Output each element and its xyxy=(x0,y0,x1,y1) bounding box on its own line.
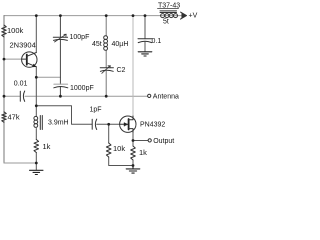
wire C2 to main wire xyxy=(105,71,107,96)
node dot emitter/tap xyxy=(35,104,38,107)
wire bottom-right xyxy=(109,157,133,166)
wire 1pF to gate xyxy=(97,123,120,125)
wire output xyxy=(132,132,134,146)
wire collector column xyxy=(35,16,37,53)
wire left rail xyxy=(3,16,5,163)
node dot emitter ground xyxy=(35,162,38,165)
inductor L3 choke 5t on T37-43 xyxy=(161,14,178,18)
svg-text:Antenna: Antenna xyxy=(153,94,179,101)
wire 0.1 cap branch xyxy=(144,16,146,39)
wire drain column xyxy=(132,16,134,116)
wire base (Q1) xyxy=(4,58,22,60)
ground (emitter) xyxy=(30,170,44,174)
svg-text:C2: C2 xyxy=(117,67,126,74)
wire tank column top xyxy=(105,16,107,36)
output terminal xyxy=(148,139,151,142)
wire trimmer column top xyxy=(59,16,61,37)
resistor R5 1k (source) xyxy=(131,146,136,160)
capacitor C1 0.01 xyxy=(20,91,24,101)
node dot 1000pF bottom xyxy=(59,95,62,98)
svg-text:100pF: 100pF xyxy=(70,34,90,41)
svg-text:1000pF: 1000pF xyxy=(70,85,94,92)
wire feedback emitter to caps xyxy=(36,76,60,78)
svg-text:Output: Output xyxy=(153,138,174,145)
resistor R2 47k xyxy=(2,112,7,123)
node dots left rail xyxy=(3,58,6,61)
node dot gate/10k xyxy=(107,123,110,126)
node dot source ground xyxy=(132,164,135,167)
wire 1000pF to main wire xyxy=(59,87,61,96)
svg-text:100k: 100k xyxy=(7,26,24,35)
node dot source/output xyxy=(132,139,135,142)
inductor L2 3.9mH xyxy=(34,116,38,127)
inductor L1 40uH (tank coil) xyxy=(104,36,108,51)
resistor R1 100k xyxy=(2,25,7,37)
svg-text:47k: 47k xyxy=(8,113,20,122)
svg-text:5t: 5t xyxy=(163,19,169,26)
wire emitter tap to 1pF xyxy=(36,106,92,125)
wire main horizontal (tank bottom / antenna) xyxy=(4,95,148,97)
transistor Q2 PN4392 JFET xyxy=(120,116,136,132)
svg-text:1k: 1k xyxy=(139,148,147,157)
wire 10k top xyxy=(108,124,110,143)
svg-text:1pF: 1pF xyxy=(90,107,102,114)
wire emitter column xyxy=(35,67,37,116)
svg-text:1k: 1k xyxy=(43,142,51,151)
ground (0.1 cap) xyxy=(138,52,152,56)
svg-text:45t: 45t xyxy=(92,41,102,48)
wire 1k to ground node xyxy=(35,153,37,171)
resistor R4 10k xyxy=(106,143,111,157)
svg-text:10k: 10k xyxy=(113,144,125,153)
capacitor C2 variable xyxy=(100,68,113,72)
+V arrow xyxy=(181,12,187,19)
svg-text:40µH: 40µH xyxy=(112,41,129,48)
svg-text:2N3904: 2N3904 xyxy=(10,41,36,50)
svg-text:0.1: 0.1 xyxy=(152,38,162,45)
resistor R3 1k (emitter) xyxy=(34,140,39,153)
wire bottom-left xyxy=(4,162,36,164)
capacitor 1000pF xyxy=(54,83,68,85)
node dots on top rail xyxy=(35,14,38,17)
wire coil to C2 xyxy=(105,51,107,68)
capacitor 0.1 bypass xyxy=(138,39,152,43)
node dot tank bottom xyxy=(105,95,108,98)
antenna terminal xyxy=(148,94,151,97)
capacitor 1pF xyxy=(92,119,97,129)
svg-text:3.9mH: 3.9mH xyxy=(48,120,69,127)
svg-text:0.01: 0.01 xyxy=(14,81,28,88)
svg-text:+V: +V xyxy=(189,13,198,20)
wire below 3.9mH to 1k xyxy=(35,129,37,140)
svg-text:PN4392: PN4392 xyxy=(140,122,165,129)
wire trimmer to 1000pF xyxy=(59,40,61,84)
transistor Q1 2N3904 xyxy=(22,52,37,67)
wire top rail +V xyxy=(4,15,186,17)
capacitor 100pF trimmer xyxy=(53,37,67,40)
ground (source) xyxy=(126,166,140,174)
node dot emitter/feedback xyxy=(35,76,38,79)
